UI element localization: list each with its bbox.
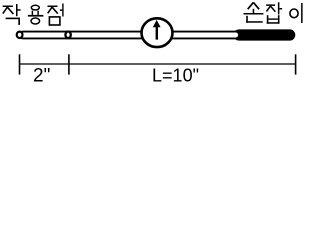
label 손잡이 syllable 잡 [266, 2, 282, 23]
svg-text:2": 2" [33, 65, 50, 86]
label 작용점 syllable 점 [48, 4, 64, 26]
tick at handle end [295, 54, 297, 74]
label 작용점 syllable 용 [28, 5, 44, 24]
tick at 2 inch point [68, 54, 70, 74]
tick at action point [19, 54, 21, 74]
label 손잡이 syllable 이 [290, 3, 303, 23]
gauge needle arrow [153, 20, 161, 40]
label 작용점 syllable 작 [3, 4, 21, 25]
handle (black grip) [234, 29, 296, 40]
label 손잡이 syllable 손 [244, 2, 264, 22]
wrench shaft (rod) [20, 32, 240, 39]
gauge dial circle [142, 18, 173, 47]
dimension line [20, 63, 296, 65]
svg-text:L=10": L=10" [152, 65, 199, 85]
pivot ring at 2 inch [65, 32, 70, 39]
socket end cap ellipse (action point) [17, 32, 23, 38]
